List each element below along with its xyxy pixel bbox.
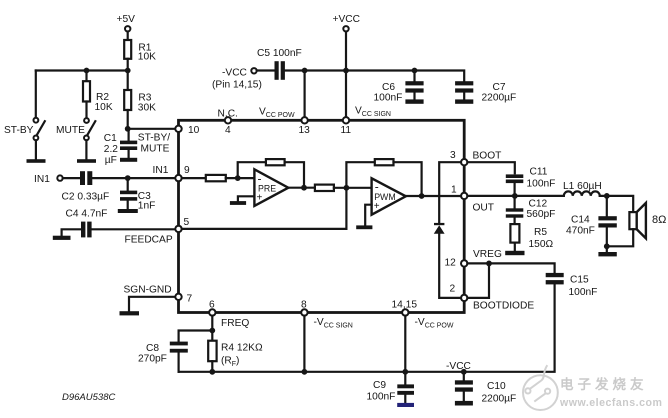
ground R5 bbox=[505, 251, 524, 255]
-VCC terminal (C5) bbox=[212, 68, 262, 91]
capacitor C9 bbox=[367, 372, 415, 403]
node rail/R2 junction bbox=[84, 68, 90, 74]
wire PRE out bbox=[288, 187, 315, 189]
wire pin6 drop bbox=[211, 316, 213, 341]
speaker LS1 bbox=[629, 203, 666, 239]
pin 5 bbox=[175, 217, 189, 232]
capacitor C2 bbox=[62, 171, 110, 202]
node PRE feedback tap bbox=[235, 175, 241, 181]
node C1/pin10 junction bbox=[125, 126, 131, 132]
svg-text:C5 100nF: C5 100nF bbox=[257, 48, 302, 59]
capacitor C14 bbox=[566, 196, 617, 252]
svg-text:11: 11 bbox=[341, 125, 352, 136]
capacitor C7 bbox=[455, 81, 516, 103]
svg-text:14,15: 14,15 bbox=[392, 300, 418, 311]
ground C1 bbox=[120, 158, 137, 162]
svg-text:OUT: OUT bbox=[473, 203, 495, 214]
wire pin3 to C11 bbox=[467, 162, 514, 173]
capacitor C8 bbox=[138, 342, 188, 372]
pin 10 bbox=[175, 125, 199, 136]
svg-text:BOOT: BOOT bbox=[473, 151, 502, 162]
wire to PRE minus bbox=[226, 177, 255, 179]
IN1 terminal bbox=[34, 174, 63, 185]
svg-text:IN1: IN1 bbox=[34, 174, 50, 185]
diode D1 bootstrap bbox=[434, 223, 445, 234]
svg-text:N.C.: N.C. bbox=[218, 109, 238, 120]
wire R1 to rail bbox=[127, 59, 129, 71]
svg-text:+: + bbox=[374, 201, 380, 212]
wire C4 to pin 5 bbox=[92, 228, 176, 230]
pin 12 VREG bbox=[445, 249, 502, 269]
wire pin7 to ground bbox=[129, 297, 175, 311]
svg-text:-VCC SIGN: -VCC SIGN bbox=[314, 317, 353, 330]
svg-text:R5: R5 bbox=[534, 227, 547, 238]
switch ST-BY bbox=[4, 118, 46, 163]
svg-text:-VCC: -VCC bbox=[446, 361, 471, 372]
pin 3 BOOT bbox=[450, 150, 501, 165]
ground C4 bbox=[53, 229, 81, 240]
svg-text:-VCC: -VCC bbox=[222, 68, 247, 79]
wire PWM feedback up bbox=[346, 162, 374, 188]
svg-text:560pF: 560pF bbox=[527, 209, 556, 220]
watermark logo elecfans bbox=[523, 365, 558, 410]
wire PRE plus to ground bbox=[238, 196, 255, 201]
svg-text:C4 4.7nF: C4 4.7nF bbox=[66, 209, 108, 220]
pin 9 bbox=[153, 165, 191, 181]
svg-text:www.elecfans.com: www.elecfans.com bbox=[559, 397, 662, 409]
svg-text:ST-BY/: ST-BY/ bbox=[138, 133, 170, 144]
node C10/rail bbox=[461, 369, 467, 375]
wire C15 to -VCC rail bbox=[179, 284, 555, 371]
node pin14,15/rail C9 bbox=[402, 369, 408, 375]
+5V terminal bbox=[117, 14, 136, 31]
svg-text:10K: 10K bbox=[138, 52, 156, 63]
svg-text:C11: C11 bbox=[530, 167, 548, 178]
node FREQ/C8 bbox=[209, 328, 215, 334]
wire VREG to C15 bbox=[467, 263, 554, 273]
capacitor C15 bbox=[546, 273, 598, 298]
switch MUTE bbox=[56, 118, 96, 163]
ground C3 bbox=[118, 209, 138, 213]
node rail/R1-R3 junction bbox=[125, 68, 131, 74]
pin 7 bbox=[175, 294, 192, 305]
svg-text:(RF): (RF) bbox=[221, 356, 239, 369]
op-amp PRE bbox=[254, 169, 288, 206]
resistor PWM feedback bbox=[375, 159, 394, 165]
node PRE out bbox=[301, 185, 307, 191]
svg-text:6: 6 bbox=[209, 300, 215, 311]
svg-text:100nF: 100nF bbox=[527, 179, 556, 190]
svg-text:C10: C10 bbox=[487, 381, 506, 392]
svg-text:FREQ: FREQ bbox=[221, 318, 249, 329]
svg-text:C8: C8 bbox=[146, 343, 159, 354]
svg-text:100nF: 100nF bbox=[367, 392, 396, 403]
svg-text:13: 13 bbox=[299, 125, 311, 136]
ground C10 bbox=[455, 401, 473, 406]
IC U1 TDA7482 outline bbox=[179, 120, 465, 312]
pin 13 VCC POW bbox=[259, 107, 310, 137]
capacitor C3 bbox=[120, 178, 155, 211]
wire PRE feedback right bbox=[285, 162, 304, 188]
svg-text:1nF: 1nF bbox=[138, 201, 156, 212]
capacitor C11 bbox=[506, 167, 556, 196]
svg-text:VREG: VREG bbox=[473, 249, 502, 260]
svg-text:150Ω: 150Ω bbox=[529, 239, 554, 250]
wire IN1 to C2 bbox=[63, 177, 80, 179]
op-amp PWM bbox=[372, 178, 406, 214]
wire C2 to pin9 bbox=[92, 177, 175, 179]
node C11/C12 on OUT bbox=[512, 193, 518, 199]
svg-text:ST-BY: ST-BY bbox=[4, 125, 34, 136]
node C6 bbox=[412, 68, 418, 74]
wire PWM out to pin 1 bbox=[406, 195, 461, 197]
wire +5V to R1 bbox=[127, 32, 129, 41]
svg-text:C15: C15 bbox=[570, 275, 589, 286]
wire +5V rail bbox=[36, 69, 128, 71]
svg-text:1: 1 bbox=[451, 185, 457, 196]
svg-text:2: 2 bbox=[450, 284, 456, 295]
svg-text:C14: C14 bbox=[571, 215, 590, 226]
pin 14,15 -VCC POW bbox=[392, 300, 454, 330]
ground PRE bbox=[230, 201, 246, 205]
ground SGN-GND bbox=[120, 311, 140, 315]
capacitor C12 bbox=[506, 196, 556, 224]
svg-text:9: 9 bbox=[184, 165, 190, 176]
wire R5 to ground bbox=[514, 243, 516, 251]
svg-text:C2 0.33µF: C2 0.33µF bbox=[62, 192, 110, 203]
capacitor C10 bbox=[455, 372, 516, 405]
ground PWM bbox=[356, 225, 372, 229]
resistor interstage bbox=[315, 185, 334, 191]
svg-text:2.2: 2.2 bbox=[104, 144, 118, 155]
wire pin2 to VREG bbox=[467, 263, 489, 298]
svg-text:+5V: +5V bbox=[117, 14, 136, 25]
ground C7 bbox=[455, 99, 473, 103]
svg-text:D96AU538C: D96AU538C bbox=[62, 392, 115, 403]
wire to C8 bbox=[179, 331, 213, 342]
resistor input R (PRE) bbox=[206, 175, 226, 181]
svg-text:-VCC POW: -VCC POW bbox=[415, 317, 454, 330]
wire pin13 riser bbox=[304, 71, 306, 118]
node R4/rail bbox=[209, 369, 215, 375]
svg-text:VCC SIGN: VCC SIGN bbox=[355, 106, 391, 119]
ground C14 bbox=[598, 252, 616, 256]
resistor R3 bbox=[124, 90, 156, 114]
capacitor C4 bbox=[66, 209, 108, 238]
resistor PRE feedback bbox=[266, 159, 285, 165]
inductor L1 bbox=[563, 181, 602, 196]
capacitor C6 bbox=[374, 71, 424, 104]
svg-text:BOOTDIODE: BOOTDIODE bbox=[473, 301, 534, 312]
resistor R5 bbox=[510, 224, 553, 250]
svg-text:100nF: 100nF bbox=[374, 93, 403, 104]
capacitor C5 bbox=[257, 48, 302, 80]
ground C6 bbox=[405, 99, 423, 103]
node C14 tap bbox=[604, 193, 610, 199]
label ST-BY/MUTE pin name bbox=[138, 133, 170, 155]
wire speaker return bbox=[607, 229, 633, 246]
pin 6 FREQ bbox=[209, 300, 249, 330]
wire R3 drop bbox=[127, 71, 129, 91]
wire PRE feedback up bbox=[238, 162, 266, 178]
wire +VCC drop bbox=[345, 32, 347, 71]
node C14/speaker return bbox=[604, 243, 610, 249]
svg-text:2200µF: 2200µF bbox=[482, 394, 517, 405]
svg-text:100nF: 100nF bbox=[569, 287, 598, 298]
wire -VCC to C5 bbox=[257, 69, 275, 71]
svg-text:+: + bbox=[257, 193, 263, 204]
pin 8 -VCC SIGN bbox=[301, 300, 353, 330]
pin 4 N.C. bbox=[218, 109, 238, 137]
wire pin3 internal bbox=[439, 162, 461, 223]
wire L1 to speaker corner bbox=[600, 196, 633, 212]
node +VCC bbox=[343, 68, 349, 74]
svg-text:8Ω: 8Ω bbox=[652, 214, 666, 226]
ground C9 (blue bar) bbox=[397, 403, 414, 407]
svg-text:2200µF: 2200µF bbox=[482, 93, 517, 104]
wire pin8 drop bbox=[303, 316, 305, 372]
wire R2 to MUTE bbox=[85, 102, 87, 118]
svg-text:C12: C12 bbox=[529, 199, 548, 210]
resistor R1 bbox=[124, 40, 156, 63]
node PWM input bbox=[344, 185, 350, 191]
capacitor C1 bbox=[104, 129, 137, 166]
svg-text:R4 12KΩ: R4 12KΩ bbox=[221, 343, 263, 354]
wire FEEDCAP horizontal bbox=[182, 228, 347, 230]
svg-text:+VCC: +VCC bbox=[333, 14, 360, 25]
resistor R2 bbox=[83, 81, 113, 113]
node PWM feedback join bbox=[419, 193, 425, 199]
svg-text:8: 8 bbox=[301, 300, 307, 311]
svg-text:270pF: 270pF bbox=[138, 354, 167, 365]
wire top +VCC rail bbox=[285, 71, 464, 82]
wire pin14,15 drop bbox=[404, 316, 406, 372]
svg-text:470nF: 470nF bbox=[566, 226, 595, 237]
pin 2 BOOTDIODE bbox=[450, 284, 535, 312]
wire pin9 to input resistor bbox=[182, 177, 206, 179]
svg-text:FEEDCAP: FEEDCAP bbox=[125, 235, 173, 246]
wire to ST-BY switch bbox=[35, 71, 37, 118]
wire PWM feedback right bbox=[394, 162, 422, 196]
wire R4 to rail bbox=[211, 361, 213, 372]
svg-text:7: 7 bbox=[187, 294, 193, 305]
wire PWM plus to ground bbox=[365, 205, 371, 226]
wire pin11 riser bbox=[345, 71, 347, 118]
wire FEEDCAP riser bbox=[345, 188, 347, 229]
node VREG/BOOTDIODE bbox=[486, 261, 492, 267]
svg-text:30K: 30K bbox=[138, 103, 156, 114]
wire to PWM node bbox=[334, 187, 372, 189]
wire junction to pin 10 bbox=[128, 128, 176, 130]
svg-text:12: 12 bbox=[445, 258, 457, 269]
svg-text:SGN-GND: SGN-GND bbox=[124, 284, 172, 295]
svg-text:MUTE: MUTE bbox=[56, 125, 85, 136]
+VCC terminal bbox=[333, 14, 360, 31]
wire R2 drop bbox=[85, 71, 87, 82]
svg-text:4: 4 bbox=[225, 125, 231, 136]
node pin8/rail bbox=[302, 369, 308, 375]
pin 11 VCC SIGN bbox=[341, 106, 391, 137]
wire R3 to pin10 node bbox=[127, 110, 129, 129]
svg-text:10: 10 bbox=[188, 125, 200, 136]
svg-text:3: 3 bbox=[450, 150, 456, 161]
node IN1/C3 junction bbox=[125, 175, 131, 181]
pin 1 OUT bbox=[451, 185, 494, 214]
svg-text:C6: C6 bbox=[382, 82, 395, 93]
svg-text:µF: µF bbox=[105, 155, 117, 166]
svg-text:IN1: IN1 bbox=[153, 165, 169, 176]
svg-text:C7: C7 bbox=[493, 82, 506, 93]
svg-text:C1: C1 bbox=[104, 133, 117, 144]
svg-text:C9: C9 bbox=[373, 380, 386, 391]
svg-text:电子发烧友: 电子发烧友 bbox=[560, 376, 648, 392]
wire diode to pin 2 bbox=[439, 234, 461, 298]
svg-text:5: 5 bbox=[184, 217, 190, 228]
node C5/pin13 bbox=[302, 68, 308, 74]
wire OUT bbox=[467, 195, 563, 197]
svg-text:VCC POW: VCC POW bbox=[259, 107, 295, 120]
svg-text:MUTE: MUTE bbox=[141, 144, 170, 155]
resistor R4 bbox=[208, 341, 263, 368]
svg-text:(Pin 14,15): (Pin 14,15) bbox=[212, 80, 262, 91]
svg-text:10K: 10K bbox=[95, 102, 113, 113]
